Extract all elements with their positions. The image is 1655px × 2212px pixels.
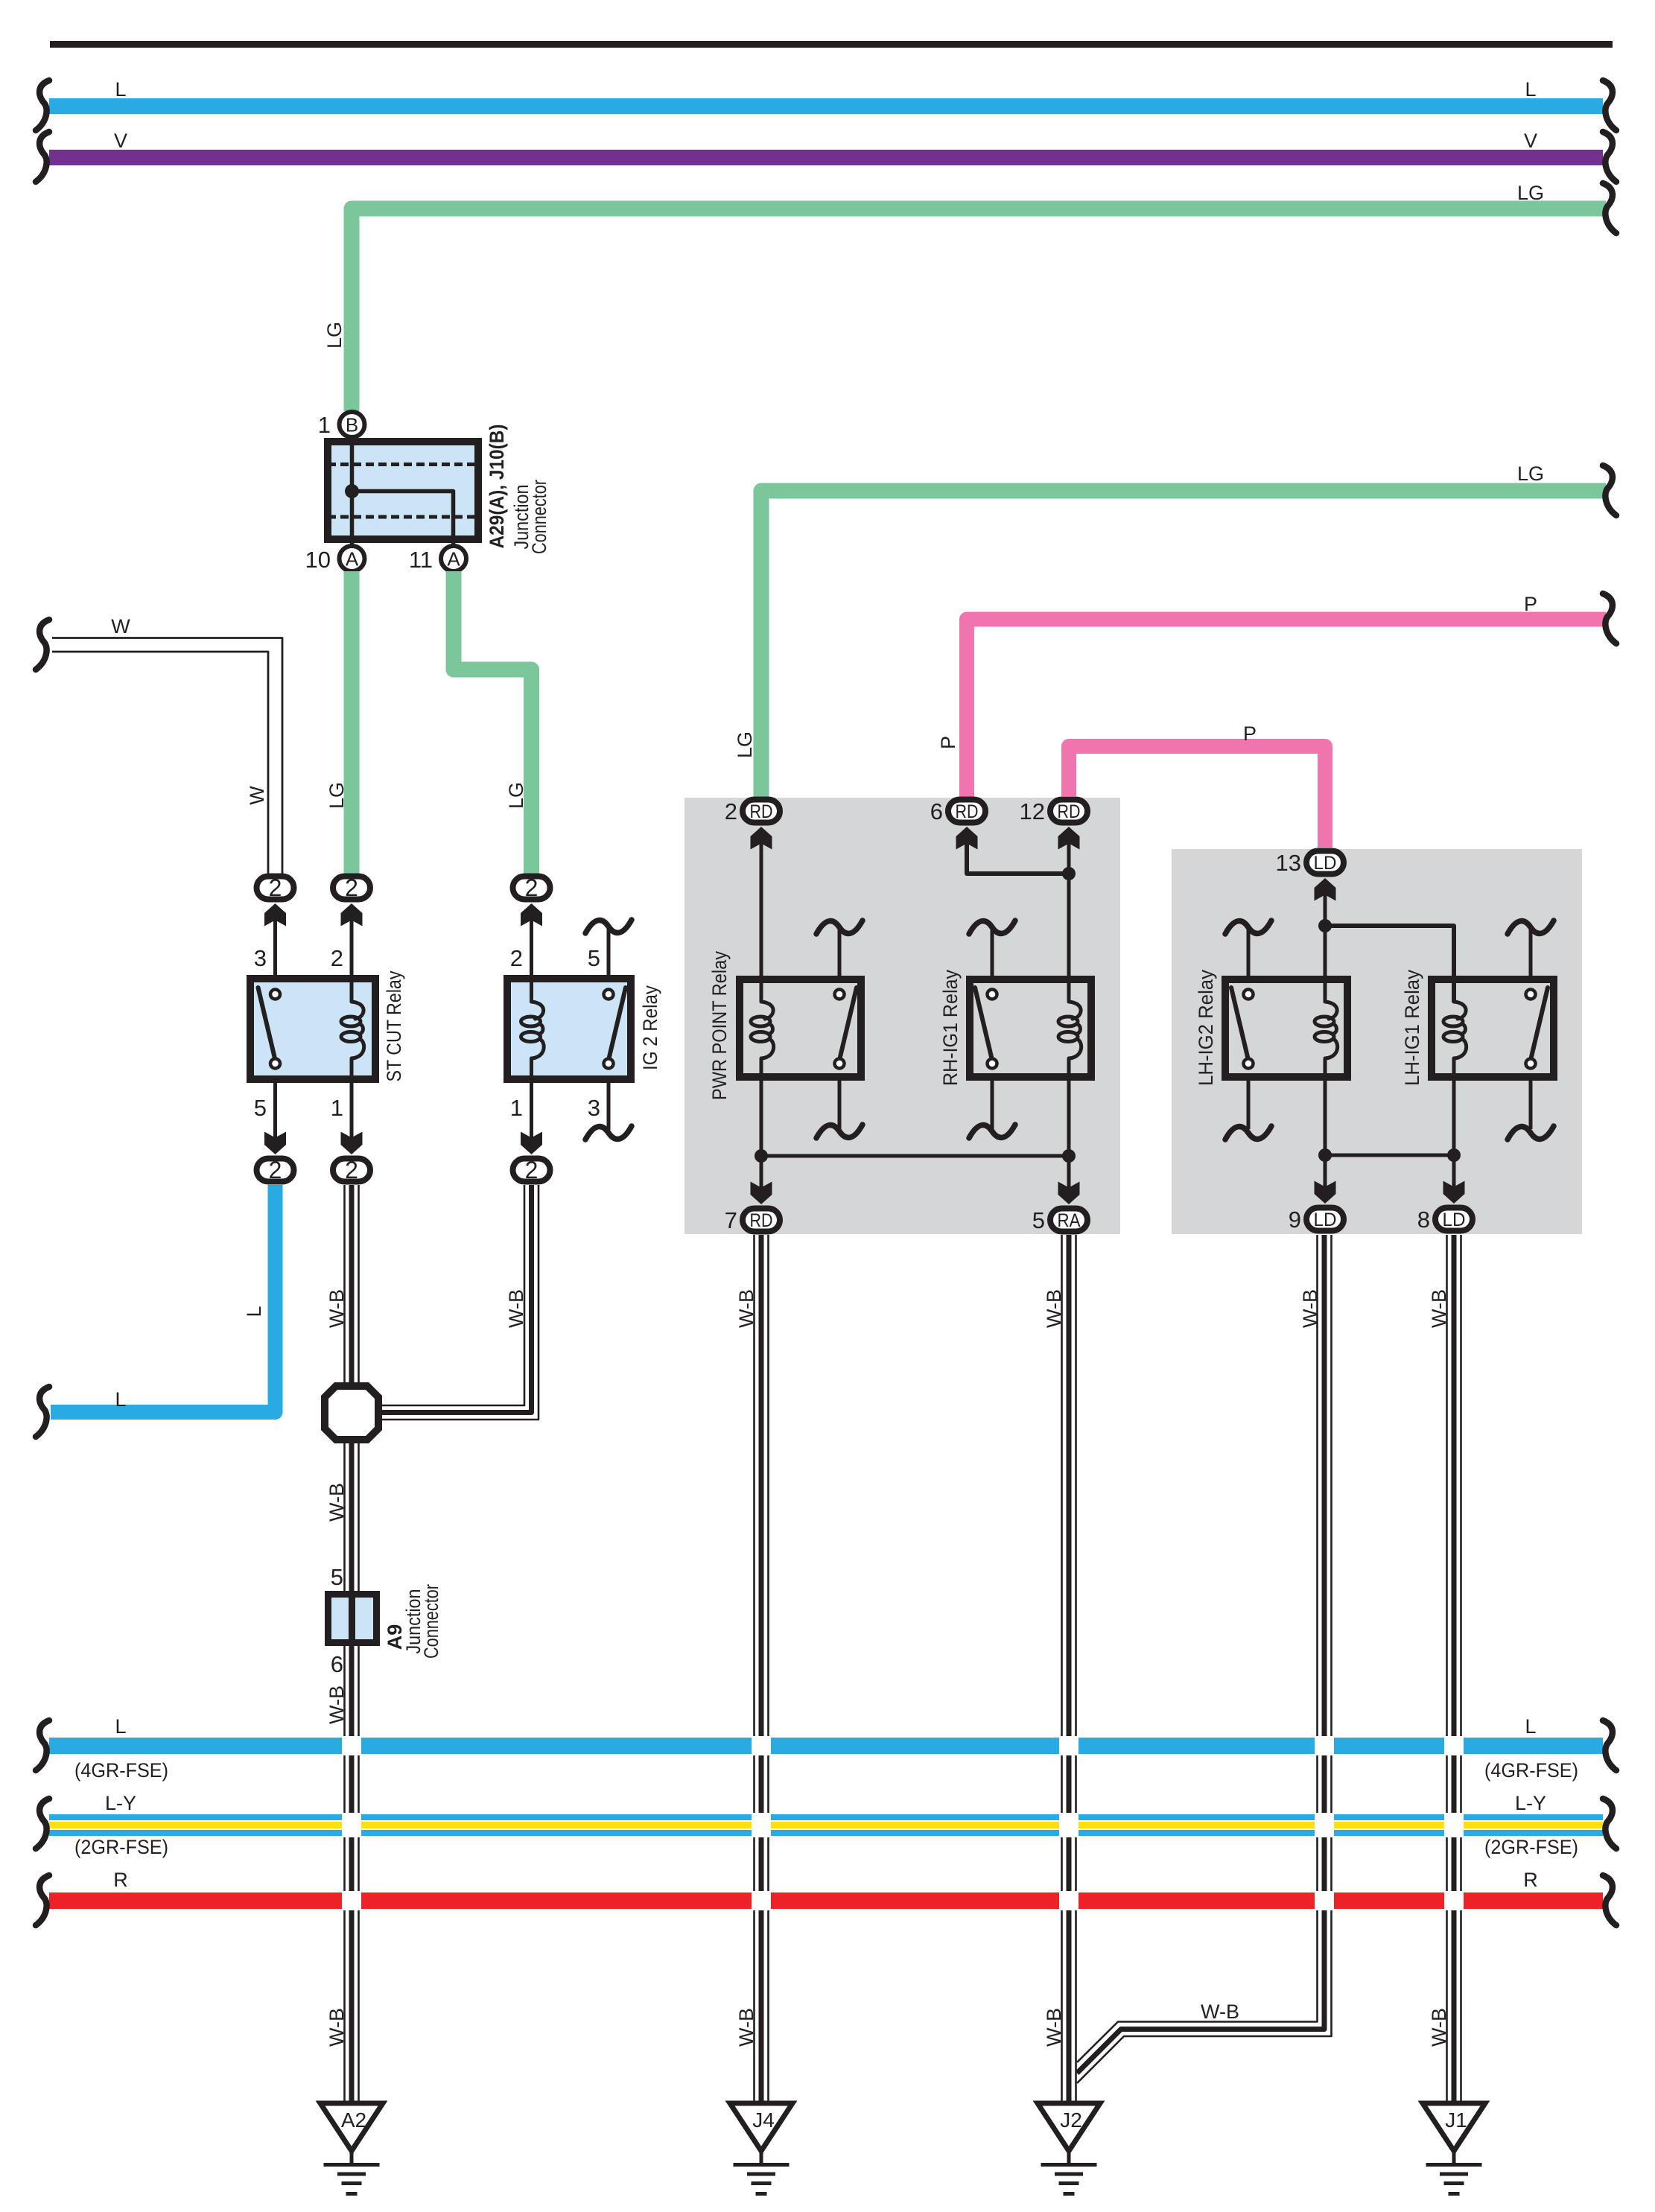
svg-text:P: P bbox=[1243, 722, 1257, 745]
svg-text:L-Y: L-Y bbox=[1515, 1792, 1546, 1814]
label A9 bbox=[384, 1624, 406, 1650]
svg-text:12: 12 bbox=[1020, 798, 1045, 824]
wire PWR POINT coil to junction dot bbox=[760, 1058, 763, 1156]
label W-B (7 RD wire upper) bbox=[735, 1289, 757, 1328]
label LG (right, second) bbox=[1517, 463, 1544, 485]
relay IG 2 box bbox=[507, 979, 631, 1079]
PWR POINT coil bbox=[751, 1002, 774, 1058]
ST CUT coil bbox=[341, 1002, 364, 1058]
pin label 6 (6 RD) bbox=[930, 798, 943, 824]
wire down to 9 LD bbox=[1324, 1155, 1327, 1188]
pin label 8 (8 LD) bbox=[1417, 1207, 1430, 1233]
svg-text:RD: RD bbox=[956, 801, 979, 822]
svg-text:Connector: Connector bbox=[420, 1584, 442, 1659]
junction connector pin 10 circle A bbox=[340, 546, 365, 571]
oval 9 LD bbox=[1306, 1208, 1344, 1231]
svg-text:W-B: W-B bbox=[1043, 1289, 1065, 1328]
squiggle above RH-IG1 switch bbox=[969, 921, 1015, 934]
bus L (top) bbox=[49, 98, 1603, 114]
svg-text:5: 5 bbox=[588, 945, 600, 971]
brace right of bus L-Y bbox=[1603, 1799, 1616, 1849]
wire LG main (top bus to junction connector) bbox=[352, 209, 1606, 411]
wire below LH-IG2 switch bbox=[1247, 1081, 1251, 1129]
svg-text:(2GR-FSE): (2GR-FSE) bbox=[74, 1836, 168, 1858]
svg-text:W-B: W-B bbox=[505, 1289, 527, 1328]
label L (4GR right) bbox=[1525, 1715, 1536, 1738]
wire pin 1 below ST CUT bbox=[350, 1058, 354, 1145]
svg-text:W-B: W-B bbox=[735, 1289, 757, 1328]
connector 2 (IG 2 pin 2) bbox=[513, 874, 550, 901]
connector 2 (ST CUT pin 3) bbox=[257, 874, 294, 901]
label W (horizontal) bbox=[111, 615, 130, 638]
wire pin 5 into IG 2 bbox=[607, 928, 611, 975]
svg-text:11: 11 bbox=[409, 547, 433, 573]
IG 2 coil bbox=[521, 1002, 544, 1058]
pin label 13 (13 LD) bbox=[1276, 850, 1301, 876]
arrow down to connector (IG 2 pin 1) bbox=[521, 1132, 542, 1155]
wire L from ST CUT pin 5 bbox=[51, 1185, 276, 1412]
svg-text:6: 6 bbox=[930, 798, 943, 824]
svg-text:LG: LG bbox=[734, 731, 756, 758]
wire W-B from ST CUT pin 1 to splice bbox=[345, 1185, 359, 1385]
junction dot below 13 LD bbox=[1318, 919, 1332, 932]
svg-text:RA: RA bbox=[1058, 1210, 1081, 1231]
wire below LH-IG1 switch bbox=[1529, 1081, 1533, 1129]
arrow up into connector 2 (pin 2) bbox=[341, 903, 363, 927]
label W-B (8 LD wire upper) bbox=[1428, 1289, 1450, 1328]
svg-text:L: L bbox=[115, 1388, 126, 1411]
label W-B (9 LD wire upper) bbox=[1299, 1289, 1321, 1328]
label IG 2 Relay bbox=[639, 985, 661, 1070]
svg-text:J4: J4 bbox=[752, 2108, 775, 2132]
label LG on wire to IG 2 bbox=[505, 782, 527, 809]
svg-text:LH-IG1 Relay: LH-IG1 Relay bbox=[1401, 970, 1423, 1086]
svg-text:6: 6 bbox=[331, 1651, 343, 1677]
arrow down into 5 RA bbox=[1058, 1182, 1080, 1205]
svg-text:2: 2 bbox=[525, 1157, 539, 1183]
junction dot on 12 RD wire bbox=[1062, 867, 1076, 880]
svg-text:RD: RD bbox=[750, 1210, 773, 1231]
svg-text:LG: LG bbox=[1517, 182, 1544, 204]
relay RH-IG1 box bbox=[970, 979, 1091, 1077]
label W-B (9 LD jog) bbox=[1201, 2000, 1239, 2023]
squiggle wire end above IG 2 pin 5 bbox=[585, 920, 632, 933]
wire branch to LH-IG1 coil bbox=[1325, 926, 1454, 1002]
label L (rotated) bbox=[243, 1306, 265, 1317]
brace right of wire LG (top) bbox=[1603, 183, 1616, 233]
ground A2 bbox=[320, 2103, 383, 2194]
label LG on wire to ST CUT bbox=[325, 782, 348, 809]
pin label 1 (IG 2) bbox=[510, 1095, 523, 1121]
svg-text:LG: LG bbox=[325, 782, 348, 809]
label Connector (A9) bbox=[420, 1584, 442, 1659]
wire down to 8 LD bbox=[1452, 1155, 1456, 1188]
svg-text:J1: J1 bbox=[1445, 2108, 1467, 2132]
arrow down into 8 LD bbox=[1443, 1181, 1465, 1204]
wire down to 7 RD bbox=[760, 1156, 763, 1189]
svg-text:LH-IG2 Relay: LH-IG2 Relay bbox=[1195, 970, 1217, 1086]
svg-text:(4GR-FSE): (4GR-FSE) bbox=[1484, 1759, 1578, 1782]
label L-Y left bbox=[105, 1792, 136, 1814]
brace right of wire P bbox=[1603, 594, 1616, 643]
squiggle below LH-IG1 switch bbox=[1508, 1126, 1554, 1140]
oval 6 RD bbox=[948, 800, 985, 823]
brace right of bus L (4GR) bbox=[1603, 1720, 1616, 1770]
svg-text:RH-IG1 Relay: RH-IG1 Relay bbox=[939, 970, 962, 1086]
svg-text:2: 2 bbox=[345, 1157, 358, 1183]
oval 5 RA bbox=[1050, 1209, 1087, 1232]
label A29(A), J10(B) bbox=[486, 425, 508, 549]
svg-text:L-Y: L-Y bbox=[105, 1792, 136, 1814]
svg-text:(2GR-FSE): (2GR-FSE) bbox=[1484, 1836, 1578, 1858]
svg-text:PWR POINT Relay: PWR POINT Relay bbox=[708, 951, 731, 1100]
wire joining LH junction dots bbox=[1325, 1154, 1454, 1157]
svg-text:1: 1 bbox=[318, 412, 331, 438]
arrow down to connector (pin 5) bbox=[264, 1132, 286, 1155]
brace right of bus V bbox=[1603, 132, 1616, 182]
svg-text:R: R bbox=[113, 1869, 128, 1891]
svg-text:LG: LG bbox=[505, 782, 527, 809]
svg-text:A: A bbox=[447, 548, 460, 571]
label W-B (8 LD wire lower) bbox=[1428, 2008, 1450, 2047]
relay ST CUT box bbox=[250, 979, 375, 1079]
junction connector pin 11 circle A bbox=[441, 546, 466, 571]
label R (left) bbox=[113, 1869, 128, 1891]
wire joining bottom junction dots bbox=[761, 1154, 1069, 1158]
wire LG from pin 10 to ST CUT relay bbox=[344, 571, 360, 874]
pin label 11 bbox=[409, 547, 433, 573]
svg-text:1: 1 bbox=[510, 1095, 523, 1121]
wire pin 3 below IG 2 bbox=[607, 1083, 611, 1130]
label Junction (A9) bbox=[402, 1589, 425, 1654]
relay LH-IG1 box bbox=[1432, 979, 1554, 1077]
ST CUT switch bbox=[258, 988, 281, 1069]
label LG (top right) bbox=[1517, 182, 1544, 204]
svg-text:2: 2 bbox=[331, 945, 343, 971]
svg-text:P: P bbox=[1524, 593, 1537, 615]
junction connector internal bus bbox=[345, 442, 454, 545]
svg-text:B: B bbox=[346, 414, 358, 436]
wire W-B from 7 RD to ground J4 bbox=[755, 1235, 769, 2103]
svg-text:9: 9 bbox=[1289, 1207, 1301, 1233]
svg-text:3: 3 bbox=[254, 945, 267, 971]
wire from 2 RD to PWR POINT coil bbox=[760, 842, 763, 1002]
label V (left) bbox=[114, 130, 127, 152]
label W-B (below A9) bbox=[325, 1685, 348, 1724]
svg-text:2: 2 bbox=[525, 874, 539, 901]
PWR POINT switch bbox=[835, 988, 857, 1069]
wire pin 5 below ST CUT bbox=[273, 1083, 277, 1145]
squiggle below LH-IG2 switch bbox=[1225, 1126, 1271, 1140]
pin label 2 (2 RD) bbox=[725, 798, 737, 824]
squiggle below PWR POINT switch bbox=[816, 1125, 863, 1138]
wire W-B from 8 LD to ground J1 bbox=[1447, 1235, 1461, 2103]
label P (right) bbox=[1524, 593, 1537, 615]
svg-text:P: P bbox=[937, 736, 959, 749]
squiggle below RH-IG1 switch bbox=[969, 1125, 1015, 1138]
label LG above junction connector bbox=[323, 322, 346, 349]
junction connector pin 1 circle B bbox=[340, 412, 365, 437]
label LG (on drop to 2 RD) bbox=[734, 731, 756, 758]
svg-text:W-B: W-B bbox=[325, 2008, 348, 2047]
wire pin 2 into IG 2 coil bbox=[530, 918, 533, 1002]
svg-text:2: 2 bbox=[345, 874, 358, 901]
svg-text:5: 5 bbox=[1032, 1207, 1045, 1233]
wire LG from pin 11 to IG 2 relay bbox=[454, 571, 532, 874]
svg-text:W-B: W-B bbox=[1201, 2000, 1239, 2023]
label Connector (A29) bbox=[528, 480, 550, 554]
LH-IG1 switch bbox=[1526, 988, 1548, 1069]
pin label 6 (A9) bbox=[331, 1651, 343, 1677]
bus gaps at wire crossings bbox=[342, 1736, 1464, 1910]
svg-text:W-B: W-B bbox=[1043, 2008, 1065, 2047]
svg-text:IG 2 Relay: IG 2 Relay bbox=[639, 985, 661, 1070]
svg-text:J2: J2 bbox=[1060, 2108, 1082, 2132]
label R (right) bbox=[1523, 1869, 1538, 1891]
label (2GR-FSE) right bbox=[1484, 1836, 1578, 1858]
wire above LH-IG1 switch bbox=[1529, 928, 1533, 976]
relay PWR POINT box bbox=[740, 979, 861, 1077]
label W-B (IG 2 pin 1 wire) bbox=[505, 1289, 527, 1328]
label P (on drop to 6 RD) bbox=[937, 736, 959, 749]
wire P to 6 RD bbox=[967, 620, 1606, 798]
pin label 5 (A9) bbox=[331, 1564, 343, 1590]
label W-B (5 RA wire lower) bbox=[1043, 2008, 1065, 2047]
svg-text:R: R bbox=[1523, 1869, 1538, 1891]
svg-text:W-B: W-B bbox=[325, 1685, 348, 1724]
connector 2 (ST CUT pin 2) bbox=[333, 874, 370, 901]
wire W horizontal/vertical double line bbox=[52, 638, 282, 875]
squiggle above LH-IG1 switch bbox=[1508, 921, 1554, 934]
svg-text:Connector: Connector bbox=[528, 480, 550, 554]
svg-text:A: A bbox=[346, 548, 359, 571]
wire W-B from 5 RA to ground J2 bbox=[1062, 1235, 1076, 2103]
label W-B (7 RD wire lower) bbox=[735, 2008, 757, 2047]
pin label 5 (ST CUT) bbox=[254, 1095, 267, 1121]
arrow down into 9 LD bbox=[1315, 1181, 1336, 1204]
svg-text:RD: RD bbox=[750, 801, 773, 822]
svg-text:W-B: W-B bbox=[1299, 1289, 1321, 1328]
svg-text:A2: A2 bbox=[341, 2108, 366, 2132]
svg-text:LD: LD bbox=[1314, 1210, 1337, 1230]
LH-IG1 coil bbox=[1443, 1002, 1467, 1058]
junction connector A9 body bbox=[328, 1594, 377, 1643]
oval 12 RD bbox=[1050, 800, 1087, 823]
squiggle above PWR POINT switch bbox=[816, 921, 863, 934]
label RH-IG1 Relay bbox=[939, 970, 962, 1086]
junction dot below RH-IG1 bbox=[1062, 1149, 1076, 1163]
label ST CUT Relay bbox=[383, 970, 405, 1081]
svg-text:ST CUT Relay: ST CUT Relay bbox=[383, 970, 405, 1081]
bus V bbox=[49, 150, 1603, 165]
svg-text:LG: LG bbox=[1517, 463, 1544, 485]
oval 2 RD bbox=[743, 800, 780, 823]
svg-text:L: L bbox=[243, 1306, 265, 1317]
pin label 12 (12 RD) bbox=[1020, 798, 1045, 824]
connector 2 (IG 2 pin 1) bbox=[513, 1157, 550, 1183]
svg-text:2: 2 bbox=[510, 945, 523, 971]
relay block grey box 2 bbox=[1172, 849, 1582, 1234]
junction dot below PWR POINT bbox=[755, 1149, 768, 1163]
svg-text:W-B: W-B bbox=[1428, 1289, 1450, 1328]
svg-text:13: 13 bbox=[1276, 850, 1301, 876]
squiggle above LH-IG2 switch bbox=[1225, 921, 1271, 934]
pin label 5 (5 RA) bbox=[1032, 1207, 1045, 1233]
pin label 9 (9 LD) bbox=[1289, 1207, 1301, 1233]
svg-text:V: V bbox=[1524, 130, 1537, 152]
label (4GR-FSE) right bbox=[1484, 1759, 1578, 1782]
wire below PWR POINT switch bbox=[838, 1081, 842, 1129]
label L (horizontal, bottom left) bbox=[115, 1388, 126, 1411]
connector 2 RD (PWR POINT) bbox=[0, 0, 1, 1]
junction dot below LH-IG1 bbox=[1447, 1148, 1461, 1162]
svg-text:L: L bbox=[1525, 78, 1536, 101]
arrow up into connector 2 (IG 2 pin 2) bbox=[521, 903, 542, 927]
brace right of bus L bbox=[1603, 80, 1616, 130]
arrow down into 7 RD bbox=[751, 1182, 772, 1205]
bus L-Y (2GR-FSE) bbox=[49, 1814, 1603, 1836]
junction dot below LH-IG2 bbox=[1318, 1148, 1332, 1162]
arrow up into 2 RD bbox=[751, 827, 772, 850]
svg-text:2: 2 bbox=[725, 798, 737, 824]
bus R bbox=[49, 1892, 1603, 1909]
relay block (engine room R/B) grey box 1 bbox=[684, 798, 1120, 1234]
label L (top right) bbox=[1525, 78, 1536, 101]
oval 8 LD bbox=[1435, 1208, 1473, 1231]
splice octagon bbox=[325, 1386, 378, 1440]
wire W-B below splice bbox=[345, 1440, 359, 1591]
label PWR POINT Relay bbox=[708, 951, 731, 1100]
brace left of wire L bbox=[36, 1387, 49, 1437]
svg-text:3: 3 bbox=[588, 1095, 600, 1121]
wire LH-IG1 coil to junction dot bbox=[1452, 1058, 1456, 1155]
label W-B (below splice) bbox=[325, 1483, 348, 1522]
brace left of bus L bbox=[36, 80, 49, 130]
label V (right) bbox=[1524, 130, 1537, 152]
svg-text:W-B: W-B bbox=[325, 1289, 348, 1328]
label W (rotated) bbox=[246, 786, 268, 805]
label W-B (above splice) bbox=[325, 1289, 348, 1328]
svg-text:LD: LD bbox=[1443, 1210, 1466, 1230]
wire from 12 RD down bbox=[1067, 842, 1071, 1002]
bus L (4GR-FSE) bbox=[49, 1738, 1603, 1754]
ground J4 bbox=[730, 2103, 792, 2194]
RH-IG1 switch bbox=[975, 988, 997, 1069]
relay LH-IG2 box bbox=[1225, 979, 1347, 1077]
label P (second P wire) bbox=[1243, 722, 1257, 745]
wire P to 12 RD and 13 LD bbox=[1069, 746, 1325, 848]
arrow down to connector (pin 1) bbox=[341, 1132, 363, 1155]
svg-text:A29(A), J10(B): A29(A), J10(B) bbox=[486, 425, 508, 549]
svg-text:2: 2 bbox=[269, 1157, 282, 1183]
oval 13 LD bbox=[1306, 851, 1344, 874]
pin label 2 (IG 2) bbox=[510, 945, 523, 971]
wire below RH-IG1 switch bbox=[991, 1081, 994, 1129]
pin label 3 (ST CUT) bbox=[254, 945, 267, 971]
label W-B (A2 wire lower) bbox=[325, 2008, 348, 2047]
svg-text:5: 5 bbox=[331, 1564, 343, 1590]
arrow up into 12 RD bbox=[1058, 827, 1080, 850]
svg-text:W-B: W-B bbox=[735, 2008, 757, 2047]
pin label 10 bbox=[305, 547, 331, 573]
svg-text:L: L bbox=[115, 78, 126, 101]
ground J2 bbox=[1038, 2103, 1100, 2194]
wire down to 5 RA bbox=[1067, 1156, 1071, 1189]
ground J1 bbox=[1423, 2103, 1485, 2194]
pin label 3 (IG 2) bbox=[588, 1095, 600, 1121]
squiggle wire end below IG 2 pin 3 bbox=[585, 1126, 632, 1140]
label (2GR-FSE) left bbox=[74, 1836, 168, 1858]
wire from 13 LD down bbox=[1324, 893, 1327, 1002]
label W-B (5 RA wire upper) bbox=[1043, 1289, 1065, 1328]
oval 7 RD bbox=[743, 1209, 780, 1232]
arrow up into 13 LD bbox=[1315, 878, 1336, 901]
wire pin 2 into ST CUT coil bbox=[350, 918, 354, 1002]
svg-text:L: L bbox=[1525, 1715, 1536, 1738]
svg-text:W: W bbox=[111, 615, 130, 638]
pin label 7 (7 RD) bbox=[725, 1207, 737, 1233]
pin label 1 (ST CUT) bbox=[331, 1095, 343, 1121]
label (4GR-FSE) left bbox=[74, 1759, 168, 1782]
LH-IG2 switch bbox=[1231, 988, 1254, 1069]
svg-text:8: 8 bbox=[1417, 1207, 1430, 1233]
pin label 5 (IG 2) bbox=[588, 945, 600, 971]
svg-text:RD: RD bbox=[1058, 801, 1081, 822]
LH-IG2 coil bbox=[1315, 1002, 1338, 1058]
connector 2 (ST CUT pin 1) bbox=[333, 1157, 370, 1183]
svg-text:LD: LD bbox=[1314, 853, 1337, 874]
wire W-B below A9 bbox=[345, 1646, 359, 2103]
pin label 1 bbox=[318, 412, 331, 438]
svg-text:1: 1 bbox=[331, 1095, 343, 1121]
connector 2 (ST CUT pin 5) bbox=[257, 1157, 294, 1183]
pin label 2 (ST CUT) bbox=[331, 945, 343, 971]
label L (4GR left) bbox=[115, 1715, 126, 1738]
label L-Y right bbox=[1515, 1792, 1546, 1814]
svg-text:2: 2 bbox=[269, 874, 282, 901]
arrow up into connector 2 (pin 3) bbox=[264, 903, 286, 927]
brace left of bus L (4GR) bbox=[36, 1720, 49, 1770]
svg-text:(4GR-FSE): (4GR-FSE) bbox=[74, 1759, 168, 1782]
svg-text:W-B: W-B bbox=[1428, 2008, 1450, 2047]
svg-text:W: W bbox=[246, 786, 268, 805]
RH-IG1 coil bbox=[1058, 1002, 1081, 1058]
brace left of bus L-Y bbox=[36, 1799, 49, 1849]
svg-text:V: V bbox=[114, 130, 127, 152]
wire above LH-IG2 switch bbox=[1247, 928, 1251, 976]
junction connector A29(A),J10(B) body bbox=[328, 442, 478, 539]
svg-text:LG: LG bbox=[323, 322, 346, 349]
svg-text:W-B: W-B bbox=[325, 1483, 348, 1522]
svg-text:10: 10 bbox=[305, 547, 331, 573]
brace right of LG bus 2 bbox=[1603, 465, 1616, 515]
svg-text:7: 7 bbox=[725, 1207, 737, 1233]
top border rule bbox=[50, 41, 1613, 48]
brace left of bus R bbox=[36, 1875, 49, 1925]
IG 2 switch bbox=[604, 988, 626, 1069]
wire pin 3 into ST CUT bbox=[273, 918, 277, 975]
wire LH-IG2 coil to junction dot bbox=[1324, 1058, 1327, 1155]
brace right of bus R bbox=[1603, 1875, 1616, 1925]
wire above PWR POINT switch bbox=[838, 928, 842, 976]
wire LG into 2 RD bbox=[761, 491, 1606, 797]
label LH-IG2 Relay bbox=[1195, 970, 1217, 1086]
wire W-B from 9 LD with jog to J2 wire bbox=[1077, 1235, 1332, 2083]
brace left of wire W bbox=[36, 620, 49, 670]
brace left of bus V bbox=[36, 132, 49, 182]
svg-text:5: 5 bbox=[254, 1095, 267, 1121]
label L (top left) bbox=[115, 78, 126, 101]
